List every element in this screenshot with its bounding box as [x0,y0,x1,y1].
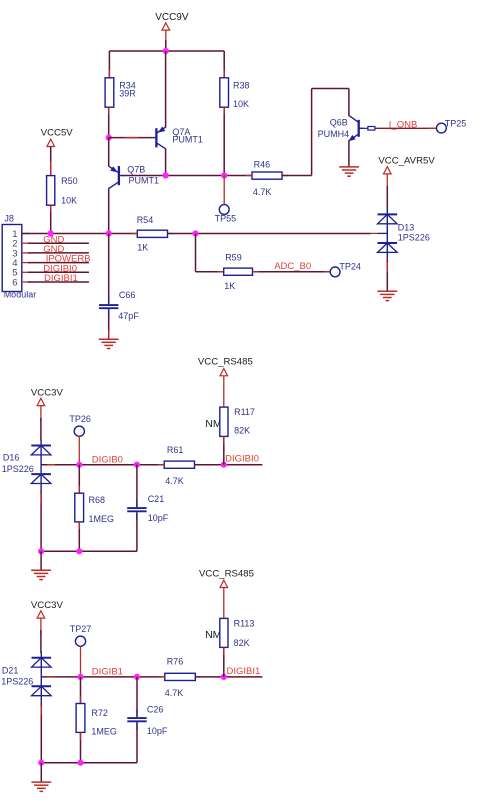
svg-text:R38: R38 [233,81,250,91]
wire D21 bottom to rail [40,702,42,763]
wire VCC3V to D21 [40,630,42,653]
wire J8 pin 3 [28,252,89,254]
wire C26 top [136,677,138,717]
net label I_ONB [389,120,418,131]
wire R72 bottom [80,732,82,762]
svg-text:TP24: TP24 [339,262,361,272]
node R117 junction (mid) [221,462,227,468]
wire Q7B collector down to bus [108,188,110,233]
svg-text:ADC_B0: ADC_B0 [274,261,311,272]
wire TP27 pin [80,646,82,677]
wire R38 bottom [223,107,225,175]
wire R113 bottom [223,647,225,677]
svg-text:DIGIB1: DIGIB1 [92,667,123,678]
svg-text:I_ONB: I_ONB [389,120,418,131]
svg-text:10pF: 10pF [147,726,168,736]
wire R59 branch [196,234,224,272]
node rail/D21 (bot) [38,760,44,766]
svg-text:PUMT1: PUMT1 [172,135,203,145]
net label DIGIBI0 (pin 5) [43,263,77,274]
node TP27/R72 junction (bot) [77,674,83,680]
svg-text:VCC_AVR5V: VCC_AVR5V [378,155,435,166]
wire J8 pin 2 [28,242,89,244]
node R59 branch junction [192,230,198,236]
wire main bus left [22,233,138,235]
svg-text:Q7B: Q7B [127,165,145,175]
ground bot section [31,782,51,791]
resistor R113 [220,618,255,648]
wire VCC_AVR5V to D13 [386,186,388,209]
node R50 junction [48,230,54,236]
net label DIGIBI1 (pin 6) [44,273,78,284]
svg-text:PUMT1: PUMT1 [129,176,160,186]
node TP26/R68 junction (mid) [76,462,82,468]
node C21 junction (mid) [134,462,140,468]
wire R72 top [80,677,82,704]
pin 6 of J8 [12,277,30,288]
node R113 junction (bot) [221,674,227,680]
pin 5 of J8 [12,268,30,279]
wire J8 pin 4 [28,262,89,264]
wire VCC3V to D16 [40,418,42,441]
wire Q7A collector down [165,148,167,175]
svg-text:82K: 82K [234,426,250,436]
wire bot main right [195,676,262,678]
power symbol VCC_AVR5V [378,155,435,190]
label NM (bot) [205,629,221,641]
svg-text:1MEG: 1MEG [89,514,115,524]
wire top bus [109,50,224,52]
pin 1 of J8 [12,229,30,240]
node R38/R46/TP55 junction [221,172,227,178]
svg-text:C26: C26 [147,704,164,714]
wire R117 bottom [223,436,225,464]
svg-text:C21: C21 [148,494,165,504]
testpoint TP55 [215,205,237,224]
svg-text:Q6B: Q6B [330,117,348,127]
wire D13 tap pin [371,232,388,234]
capacitor C21 [127,494,169,523]
testpoint TP24 [330,262,361,277]
dual diode D13 [378,208,430,258]
resistor R68 [75,493,114,524]
svg-text:4.7K: 4.7K [165,476,184,486]
svg-text:C66: C66 [119,290,136,300]
svg-text:6: 6 [12,277,17,288]
resistor R72 [76,704,117,737]
wire R34 bottom to Q7A base node [108,107,110,137]
wire Q7B base run [122,175,252,177]
svg-text:1PS226: 1PS226 [2,464,34,474]
wire C66 top [108,234,110,305]
testpoint TP26 [69,414,91,436]
svg-text:VCC_RS485: VCC_RS485 [199,568,254,579]
dual diode D16 [2,440,51,490]
wire R68 bottom [78,522,80,551]
wire Q7A base [109,137,153,139]
svg-text:VCC3V: VCC3V [31,387,64,398]
svg-text:1MEG: 1MEG [91,726,117,736]
wire R59 to TP24 [253,271,331,273]
testpoint TP27 [70,624,92,646]
transistor Q7A [153,127,203,149]
resistor R59 [224,252,253,291]
node C26 junction (bot) [134,674,140,680]
svg-text:R68: R68 [89,495,106,505]
wire TP26 pin [78,436,80,464]
testpoint TP25 [437,119,467,133]
svg-text:DIGIBI0: DIGIBI0 [225,454,259,465]
resistor R46 [246,159,288,197]
net label DIGIB0 [92,454,123,465]
pin 4 of J8 [12,258,30,269]
svg-text:4.7K: 4.7K [165,688,184,698]
svg-text:TP27: TP27 [70,624,92,634]
connector J8 [2,214,36,300]
svg-text:4.7K: 4.7K [253,187,272,197]
svg-text:NM: NM [205,629,221,641]
svg-text:R50: R50 [61,176,78,186]
wire bot rail to ground [40,763,42,783]
wire J8 pin 6 [28,281,89,283]
wire J8 pin 5 [28,271,89,273]
resistor R61 [158,445,200,486]
net label DIGIBI1 [227,666,261,677]
svg-text:Modular: Modular [4,290,37,300]
wire C21 top [136,465,138,507]
svg-text:D21: D21 [2,665,19,675]
wire I_ONB to TP25 [375,127,437,129]
ground under Q6B [339,167,359,176]
svg-text:1PS226: 1PS226 [1,677,33,687]
node rail/R68 (mid) [76,548,82,554]
svg-text:R46: R46 [254,159,271,169]
svg-text:10K: 10K [61,195,77,205]
resistor R76 [159,657,202,698]
svg-text:VCC5V: VCC5V [41,127,74,138]
wire bot main left [41,676,165,678]
resistor R54 [131,215,173,252]
dual diode D21 [1,652,51,702]
svg-text:1K: 1K [224,281,235,291]
net label DIGIB1 [92,667,123,678]
svg-text:J8: J8 [4,214,14,224]
wire VCC9V stub [165,40,167,51]
transistor Q7B [109,165,159,189]
power symbol VCC3V (mid) [31,387,64,421]
wire Q6B base out [364,127,368,129]
ground under C66 [99,339,119,348]
svg-text:DIGIBI1: DIGIBI1 [44,273,78,284]
node Q7A base junction [106,135,112,141]
wire bot ground rail [41,762,137,764]
resistor R117 [220,407,255,436]
resistor R34 [105,78,136,107]
svg-text:PUMH4: PUMH4 [318,129,350,139]
wire Q6B collector up [348,89,350,116]
power symbol VCC9V [155,12,189,42]
node Q7A collector junction [163,172,169,178]
resistor Q6B base (internal) [368,127,375,131]
svg-text:R117: R117 [234,407,255,417]
wire C26 bottom [136,722,138,762]
net label DIGIBI0 [225,454,259,465]
wire mid ground rail [41,550,137,552]
wire Q6B emitter down [348,140,350,167]
wire R38 top pin [223,51,225,78]
wire mid main left [41,464,164,466]
wire D16 bottom to rail [40,490,42,552]
svg-text:VCC3V: VCC3V [31,600,64,611]
svg-text:VCC_RS485: VCC_RS485 [198,357,253,368]
wire mid rail to ground [40,551,42,570]
svg-text:1K: 1K [137,242,148,252]
power symbol VCC_RS485 (mid) [198,357,253,407]
svg-text:TP25: TP25 [445,119,467,129]
power symbol VCC_RS485 (bot) [199,568,254,618]
svg-text:VCC9V: VCC9V [155,12,189,23]
wire D13 bottom to ground [386,258,388,291]
svg-text:39R: 39R [119,89,136,99]
svg-text:D16: D16 [3,452,20,462]
svg-text:R61: R61 [167,445,184,455]
node C66 junction [106,230,112,236]
wire R46 to Q6B collector [282,89,349,176]
svg-text:1PS226: 1PS226 [398,233,430,243]
svg-text:R113: R113 [234,619,255,629]
net label IPOWERB (pin 4) [46,254,91,265]
pin 2 of J8 [12,239,30,250]
svg-text:R59: R59 [225,252,242,262]
label NM (mid) [205,418,221,430]
wire R34 top pin [108,51,110,78]
svg-text:82K: 82K [234,638,250,648]
svg-text:47pF: 47pF [118,311,139,321]
wire mid main right [195,464,263,466]
svg-text:R76: R76 [167,657,184,667]
wire C21 bottom [136,512,138,551]
wire Q7A emitter to VCC9V bus [165,51,167,128]
svg-text:TP26: TP26 [69,414,91,424]
node rail/R72 (bot) [77,760,83,766]
svg-text:10K: 10K [233,99,249,109]
resistor R50 [47,176,78,206]
svg-text:10pF: 10pF [148,513,169,523]
ground mid section [31,570,51,579]
capacitor C66 [99,290,139,321]
power symbol VCC3V (bot) [31,600,64,634]
ground under D13 [377,291,397,300]
transistor Q6B [318,115,364,141]
svg-text:D13: D13 [398,222,415,232]
net label GND (pin 2) [43,234,64,245]
svg-text:TP55: TP55 [215,214,237,224]
svg-text:R54: R54 [137,215,154,225]
node top bus / VCC9V [163,48,169,54]
wire R68 top [78,465,80,494]
wire TP55 pin [223,176,225,205]
node rail/D16 (mid) [38,548,44,554]
svg-text:R72: R72 [91,708,108,718]
resistor R38 [220,78,250,109]
svg-text:DIGIB0: DIGIB0 [92,454,123,465]
wire R50 bottom to bus [50,205,52,233]
pin 3 of J8 [12,248,30,259]
capacitor C26 [127,704,168,736]
svg-text:DIGIBI1: DIGIBI1 [227,666,261,677]
net label ADC_B0 [274,261,311,272]
wire Q7B emitter up [108,138,110,167]
net label GND (pin 3) [43,244,64,255]
wire C66 bottom to ground [108,309,110,339]
power symbol VCC5V [41,127,74,175]
wire main bus right [168,233,371,235]
